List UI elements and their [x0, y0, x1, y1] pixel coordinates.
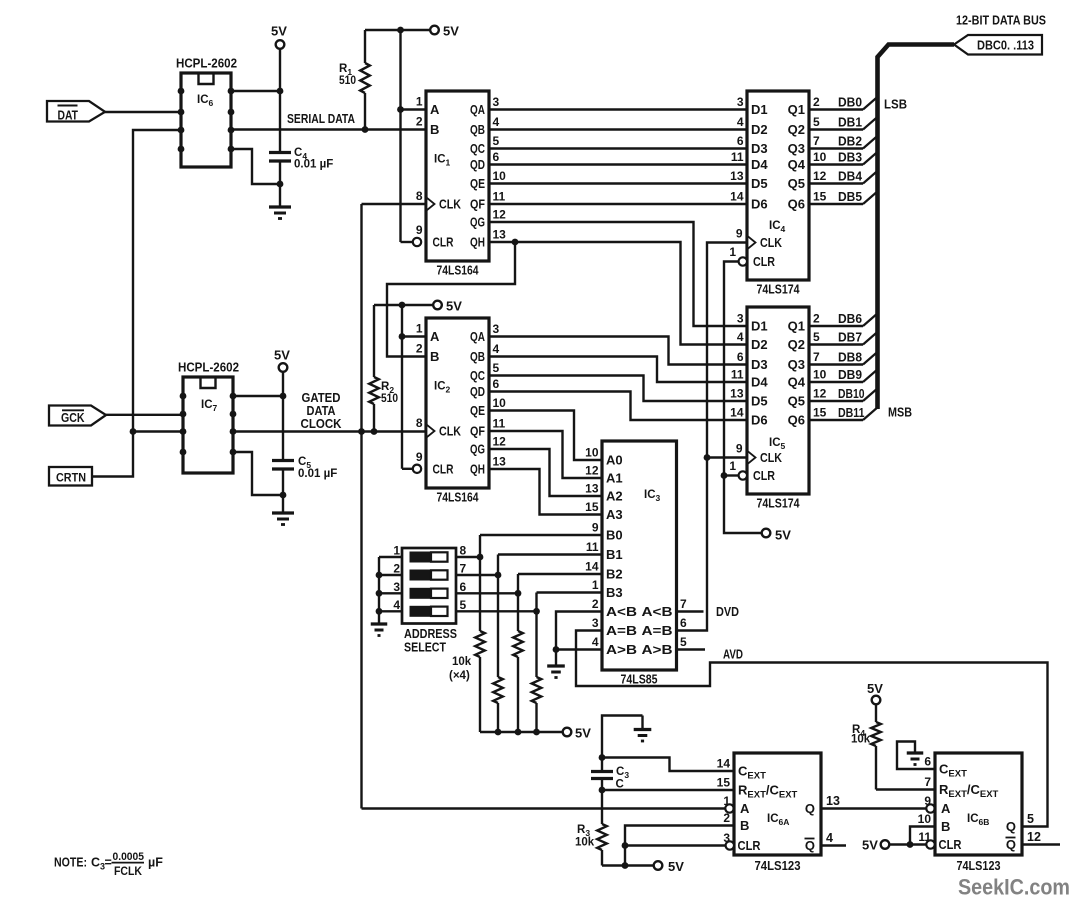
svg-text:DB7: DB7: [838, 331, 862, 345]
svg-text:7: 7: [813, 350, 820, 364]
svg-text:3: 3: [592, 616, 599, 630]
svg-text:Q1: Q1: [788, 102, 805, 117]
svg-text:4: 4: [493, 342, 500, 356]
svg-text:CLOCK: CLOCK: [301, 416, 343, 431]
svg-text:QE: QE: [470, 177, 485, 191]
svg-text:1: 1: [416, 322, 423, 336]
svg-text:QE: QE: [470, 404, 485, 418]
svg-text:B2: B2: [606, 567, 623, 582]
svg-text:D2: D2: [751, 337, 768, 352]
svg-text:12-BIT DATA BUS: 12-BIT DATA BUS: [956, 14, 1046, 28]
svg-text:D5: D5: [751, 176, 768, 191]
svg-text:CLR: CLR: [433, 236, 454, 250]
svg-text:15: 15: [813, 190, 827, 204]
svg-text:4: 4: [737, 330, 744, 344]
svg-text:14: 14: [730, 406, 744, 420]
svg-text:13: 13: [730, 169, 744, 183]
svg-text:A=B: A=B: [606, 623, 637, 638]
svg-text:7: 7: [680, 597, 687, 611]
svg-text:13: 13: [493, 455, 507, 469]
svg-text:8: 8: [460, 544, 467, 558]
svg-text:DB5: DB5: [838, 190, 862, 204]
svg-text:10: 10: [813, 150, 827, 164]
svg-text:QF: QF: [470, 198, 485, 212]
svg-text:D3: D3: [751, 141, 768, 156]
svg-text:3: 3: [393, 580, 400, 594]
svg-text:5: 5: [493, 134, 500, 148]
svg-text:A: A: [430, 102, 440, 117]
svg-text:Q: Q: [805, 838, 815, 853]
svg-text:CLK: CLK: [439, 425, 461, 439]
svg-text:AVD: AVD: [723, 648, 743, 662]
svg-text:10: 10: [813, 368, 827, 382]
svg-text:C: C: [616, 779, 624, 791]
svg-text:A0: A0: [606, 453, 623, 468]
svg-text:13: 13: [585, 482, 599, 496]
svg-text:13: 13: [826, 794, 840, 808]
svg-text:74LS85: 74LS85: [621, 673, 658, 687]
svg-text:6: 6: [460, 580, 467, 594]
svg-text:12: 12: [813, 169, 827, 183]
svg-text:6: 6: [737, 134, 744, 148]
svg-text:10k: 10k: [575, 837, 595, 849]
svg-text:QD: QD: [470, 158, 485, 172]
svg-text:Q5: Q5: [788, 176, 805, 191]
svg-text:CLR: CLR: [939, 838, 962, 852]
svg-text:Q: Q: [805, 801, 815, 816]
svg-text:NOTE:: NOTE:: [54, 856, 87, 870]
svg-text:12: 12: [813, 387, 827, 401]
svg-text:1: 1: [393, 544, 400, 558]
svg-text:11: 11: [493, 417, 506, 431]
svg-text:CLK: CLK: [439, 198, 461, 212]
svg-text:1: 1: [416, 95, 423, 109]
svg-text:A<B: A<B: [642, 604, 673, 619]
svg-text:9: 9: [736, 227, 743, 241]
svg-text:QC: QC: [470, 142, 485, 156]
svg-text:5V: 5V: [575, 726, 591, 741]
svg-text:6: 6: [493, 150, 500, 164]
svg-text:5V: 5V: [271, 24, 287, 39]
svg-text:0.01 µF: 0.01 µF: [298, 468, 337, 480]
svg-text:QB: QB: [470, 123, 485, 137]
svg-text:QH: QH: [470, 236, 485, 250]
svg-text:15: 15: [585, 500, 599, 514]
svg-text:DB8: DB8: [838, 351, 862, 365]
svg-text:4: 4: [592, 635, 599, 649]
svg-text:B3: B3: [606, 585, 623, 600]
svg-text:15: 15: [717, 776, 731, 790]
svg-text:DB3: DB3: [838, 151, 862, 165]
svg-text:74LS123: 74LS123: [957, 859, 1001, 873]
svg-text:8: 8: [416, 189, 423, 203]
svg-text:5: 5: [493, 361, 500, 375]
svg-text:1: 1: [729, 245, 736, 259]
svg-text:5V: 5V: [862, 838, 878, 853]
svg-text:Q: Q: [1006, 819, 1016, 834]
svg-text:Q6: Q6: [788, 197, 805, 212]
svg-text:DAT: DAT: [58, 108, 79, 122]
svg-text:3: 3: [493, 95, 500, 109]
svg-text:Q6: Q6: [788, 413, 805, 428]
svg-text:74LS164: 74LS164: [437, 491, 479, 505]
svg-text:10k: 10k: [851, 734, 871, 746]
svg-text:12: 12: [585, 464, 599, 478]
svg-text:1: 1: [723, 794, 730, 808]
svg-text:D1: D1: [751, 319, 768, 334]
svg-text:DB6: DB6: [838, 312, 862, 326]
svg-text:9: 9: [924, 794, 931, 808]
svg-text:D3: D3: [751, 357, 768, 372]
svg-text:B1: B1: [606, 547, 623, 562]
svg-text:B: B: [740, 818, 749, 833]
svg-text:QH: QH: [470, 463, 485, 477]
svg-text:2: 2: [393, 562, 400, 576]
svg-text:1: 1: [592, 578, 599, 592]
svg-text:D5: D5: [751, 394, 768, 409]
svg-text:12: 12: [493, 435, 507, 449]
svg-text:13: 13: [730, 387, 744, 401]
svg-text:CLK: CLK: [760, 451, 782, 465]
svg-text:QC: QC: [470, 369, 485, 383]
svg-text:CLK: CLK: [760, 236, 782, 250]
svg-text:A2: A2: [606, 489, 623, 504]
svg-text:A>B: A>B: [642, 642, 673, 657]
svg-text:10k: 10k: [452, 656, 472, 668]
svg-text:µF: µF: [148, 856, 163, 870]
svg-text:D1: D1: [751, 102, 768, 117]
svg-text:5V: 5V: [668, 859, 684, 874]
svg-text:CLR: CLR: [753, 469, 775, 483]
svg-text:5: 5: [460, 598, 467, 612]
svg-text:Q4: Q4: [788, 157, 806, 172]
svg-text:Q2: Q2: [788, 122, 805, 137]
svg-text:Q: Q: [1006, 837, 1016, 852]
svg-text:A<B: A<B: [606, 604, 637, 619]
svg-text:5: 5: [813, 115, 820, 129]
svg-text:QA: QA: [470, 103, 485, 117]
svg-text:14: 14: [730, 190, 744, 204]
svg-text:2: 2: [723, 811, 730, 825]
svg-text:13: 13: [493, 228, 507, 242]
svg-text:A1: A1: [606, 471, 623, 486]
svg-text:510: 510: [381, 393, 398, 405]
svg-text:CLR: CLR: [433, 463, 454, 477]
svg-text:6: 6: [737, 350, 744, 364]
svg-text:A>B: A>B: [606, 642, 637, 657]
svg-text:9: 9: [736, 442, 743, 456]
svg-text:(×4): (×4): [449, 670, 470, 682]
svg-text:4: 4: [493, 115, 500, 129]
svg-text:Q2: Q2: [788, 337, 805, 352]
svg-text:5: 5: [1027, 812, 1034, 826]
svg-text:14: 14: [585, 560, 599, 574]
svg-text:DB10: DB10: [838, 387, 865, 401]
svg-text:QG: QG: [470, 443, 485, 457]
svg-text:SeekIC.com: SeekIC.com: [958, 875, 1070, 900]
svg-text:9: 9: [592, 521, 599, 535]
svg-text:A: A: [430, 329, 440, 344]
svg-text:8: 8: [416, 416, 423, 430]
svg-text:11: 11: [586, 540, 599, 554]
svg-text:B: B: [941, 819, 950, 834]
svg-text:GCK: GCK: [61, 411, 85, 425]
svg-text:DVD: DVD: [716, 605, 739, 619]
svg-text:3: 3: [493, 322, 500, 336]
svg-text:MSB: MSB: [888, 405, 912, 420]
svg-text:7: 7: [813, 134, 820, 148]
svg-text:LSB: LSB: [884, 97, 907, 112]
svg-text:6: 6: [493, 377, 500, 391]
svg-text:QB: QB: [470, 350, 485, 364]
svg-text:DB1: DB1: [838, 116, 862, 130]
svg-text:A: A: [941, 801, 951, 816]
svg-text:CRTN: CRTN: [56, 471, 86, 485]
svg-text:10: 10: [493, 396, 507, 410]
svg-text:74LS123: 74LS123: [755, 859, 801, 873]
svg-text:A3: A3: [606, 507, 623, 522]
svg-text:2: 2: [592, 597, 599, 611]
svg-text:510: 510: [339, 75, 356, 87]
svg-text:D2: D2: [751, 122, 768, 137]
svg-text:QD: QD: [470, 385, 485, 399]
svg-text:CLR: CLR: [738, 839, 761, 853]
svg-text:5: 5: [813, 330, 820, 344]
svg-text:SERIAL DATA: SERIAL DATA: [287, 111, 355, 126]
svg-text:DB11: DB11: [838, 406, 865, 420]
svg-text:Q3: Q3: [788, 357, 805, 372]
svg-text:HCPL-2602: HCPL-2602: [178, 360, 239, 375]
svg-text:12: 12: [493, 208, 507, 222]
svg-text:7: 7: [924, 775, 931, 789]
svg-text:=: =: [105, 856, 112, 870]
svg-text:9: 9: [416, 223, 423, 237]
svg-text:2: 2: [813, 95, 820, 109]
svg-text:1: 1: [729, 459, 736, 473]
svg-text:2: 2: [416, 115, 423, 129]
svg-text:D4: D4: [751, 375, 768, 390]
svg-text:0.01 µF: 0.01 µF: [294, 159, 333, 171]
svg-text:QF: QF: [470, 425, 485, 439]
svg-text:DB0: DB0: [838, 96, 862, 110]
svg-text:Q1: Q1: [788, 319, 805, 334]
svg-text:DBC0. .113: DBC0. .113: [977, 39, 1034, 53]
svg-text:10: 10: [918, 812, 932, 826]
svg-text:B: B: [430, 349, 439, 364]
svg-text:DB4: DB4: [838, 170, 862, 184]
svg-text:10: 10: [493, 169, 507, 183]
svg-text:A: A: [740, 801, 750, 816]
svg-text:DB2: DB2: [838, 135, 862, 149]
svg-text:11: 11: [493, 190, 506, 204]
svg-text:Q3: Q3: [788, 141, 805, 156]
svg-text:Q4: Q4: [788, 375, 806, 390]
svg-text:D4: D4: [751, 157, 768, 172]
svg-text:5V: 5V: [867, 681, 883, 696]
svg-text:B0: B0: [606, 528, 623, 543]
svg-text:5V: 5V: [446, 299, 462, 314]
svg-text:HCPL-2602: HCPL-2602: [176, 56, 237, 71]
svg-text:6: 6: [924, 755, 931, 769]
svg-text:4: 4: [826, 831, 833, 845]
svg-text:11: 11: [731, 368, 744, 382]
svg-text:CLR: CLR: [753, 255, 775, 269]
svg-text:3: 3: [737, 312, 744, 326]
svg-text:5V: 5V: [443, 24, 459, 39]
svg-text:74LS174: 74LS174: [757, 283, 800, 297]
svg-text:5: 5: [680, 635, 687, 649]
svg-text:7: 7: [460, 562, 467, 576]
svg-text:5V: 5V: [775, 528, 791, 543]
svg-text:SELECT: SELECT: [404, 640, 446, 655]
svg-text:FCLK: FCLK: [114, 866, 143, 878]
svg-text:B: B: [430, 122, 439, 137]
svg-text:5V: 5V: [274, 348, 290, 363]
svg-text:14: 14: [717, 757, 731, 771]
svg-text:DB9: DB9: [838, 368, 862, 382]
svg-text:D6: D6: [751, 413, 768, 428]
svg-text:74LS174: 74LS174: [757, 497, 800, 511]
svg-text:11: 11: [731, 150, 744, 164]
svg-text:10: 10: [585, 446, 599, 460]
svg-text:2: 2: [813, 312, 820, 326]
svg-text:3: 3: [737, 95, 744, 109]
svg-text:Q5: Q5: [788, 394, 805, 409]
svg-text:74LS164: 74LS164: [437, 264, 479, 278]
svg-text:D6: D6: [751, 197, 768, 212]
svg-text:4: 4: [393, 598, 400, 612]
svg-text:2: 2: [416, 342, 423, 356]
svg-text:9: 9: [416, 450, 423, 464]
svg-text:A=B: A=B: [642, 623, 673, 638]
svg-text:12: 12: [1027, 830, 1041, 844]
svg-text:6: 6: [680, 616, 687, 630]
svg-text:15: 15: [813, 406, 827, 420]
svg-text:0.0005: 0.0005: [113, 851, 145, 863]
svg-text:4: 4: [737, 115, 744, 129]
svg-text:QA: QA: [470, 330, 485, 344]
svg-text:QG: QG: [470, 216, 485, 230]
